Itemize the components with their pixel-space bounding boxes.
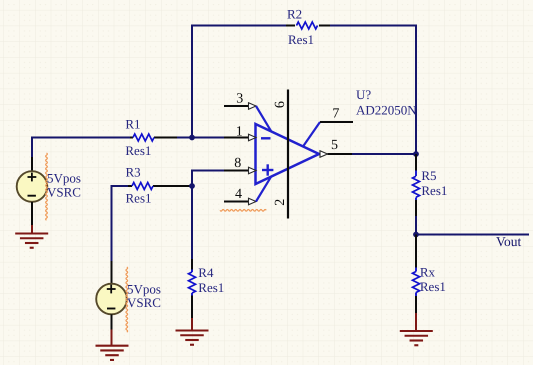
wire xyxy=(286,25,295,27)
svg-text:VSRC: VSRC xyxy=(127,295,161,310)
ground GND V2 xyxy=(96,345,129,347)
resistor R1 xyxy=(133,134,154,141)
wire power xyxy=(111,330,113,346)
svg-text:R5: R5 xyxy=(421,168,436,183)
svg-text:R2: R2 xyxy=(287,6,302,21)
svg-text:5: 5 xyxy=(331,138,338,153)
svg-text:Res1: Res1 xyxy=(420,279,446,294)
svg-text:Res1: Res1 xyxy=(421,183,447,198)
wire R4 net xyxy=(191,186,193,259)
svg-text:U?: U? xyxy=(356,87,371,102)
pin 2 (rotated) xyxy=(273,199,288,206)
wire xyxy=(154,137,177,139)
resistor R5 xyxy=(415,154,417,171)
error squiggle V1 xyxy=(46,153,48,220)
wire xyxy=(191,296,193,319)
svg-text:Rx: Rx xyxy=(420,265,436,280)
wire xyxy=(111,261,113,284)
svg-text:Res1: Res1 xyxy=(288,32,314,47)
wire feedback loop top xyxy=(192,26,286,139)
resistor R2 xyxy=(297,22,318,29)
resistor R3 xyxy=(132,183,153,190)
wire pin8 net xyxy=(192,171,224,187)
resistor R4 xyxy=(189,272,196,293)
node junction R3/R4/pin8 xyxy=(189,183,195,189)
error squiggle pin4 xyxy=(220,209,266,211)
svg-text:4: 4 xyxy=(235,187,242,202)
wire Vout net xyxy=(416,234,529,236)
wire xyxy=(128,185,132,187)
svg-text:3: 3 xyxy=(236,91,243,106)
op-amp plus input mark xyxy=(262,169,273,171)
svg-text:5Vpos: 5Vpos xyxy=(127,281,161,296)
ground GND R4 xyxy=(176,329,209,331)
wire xyxy=(153,185,192,187)
pin 1 xyxy=(224,137,249,139)
svg-text:R1: R1 xyxy=(125,116,140,131)
pin 4 xyxy=(224,201,249,203)
wire power xyxy=(415,313,417,331)
pin 5 output xyxy=(320,151,328,158)
svg-text:7: 7 xyxy=(332,106,339,121)
wire xyxy=(31,202,33,225)
source V1 5Vpos VSRC xyxy=(17,171,48,202)
svg-text:R3: R3 xyxy=(126,165,141,180)
svg-text:Vout: Vout xyxy=(496,234,522,249)
svg-text:2: 2 xyxy=(273,199,288,206)
pin 7 xyxy=(303,122,320,147)
pin 8 xyxy=(224,170,249,172)
ground GND V1 xyxy=(15,232,48,234)
wire xyxy=(130,137,133,139)
svg-text:8: 8 xyxy=(234,156,241,171)
svg-text:Res1: Res1 xyxy=(126,190,152,205)
op-amp minus input mark xyxy=(261,137,271,139)
svg-text:6: 6 xyxy=(273,101,288,108)
svg-text:VSRC: VSRC xyxy=(47,184,81,199)
op-amp U1 body xyxy=(256,124,320,184)
wire to pin1 xyxy=(177,137,224,139)
error squiggle V2 xyxy=(126,267,128,332)
svg-text:1: 1 xyxy=(236,125,243,140)
wire xyxy=(31,157,33,171)
wire R3 net xyxy=(112,186,129,261)
wire xyxy=(319,25,330,27)
pin 3 xyxy=(224,105,249,107)
wire output xyxy=(352,153,416,155)
wire power xyxy=(191,318,193,331)
wire xyxy=(415,216,417,235)
resistor Rx xyxy=(415,235,417,268)
wire power xyxy=(31,225,33,234)
svg-text:R4: R4 xyxy=(198,265,214,280)
wire xyxy=(191,259,193,270)
node junction Vout xyxy=(413,232,419,238)
svg-text:Res1: Res1 xyxy=(125,143,151,158)
pin 6 (rotated) xyxy=(273,101,288,108)
node junction pin1/R2 xyxy=(189,135,195,141)
op-amp internal vertical pin bar xyxy=(287,90,289,219)
source V2 5Vpos VSRC xyxy=(96,284,127,315)
ground GND Rx xyxy=(400,330,433,332)
node junction out/R5 xyxy=(413,151,419,157)
wire xyxy=(111,314,113,329)
wire xyxy=(330,26,416,155)
svg-text:Res1: Res1 xyxy=(198,280,224,295)
svg-text:AD22050N: AD22050N xyxy=(356,102,417,117)
wire R1 net xyxy=(32,138,130,172)
